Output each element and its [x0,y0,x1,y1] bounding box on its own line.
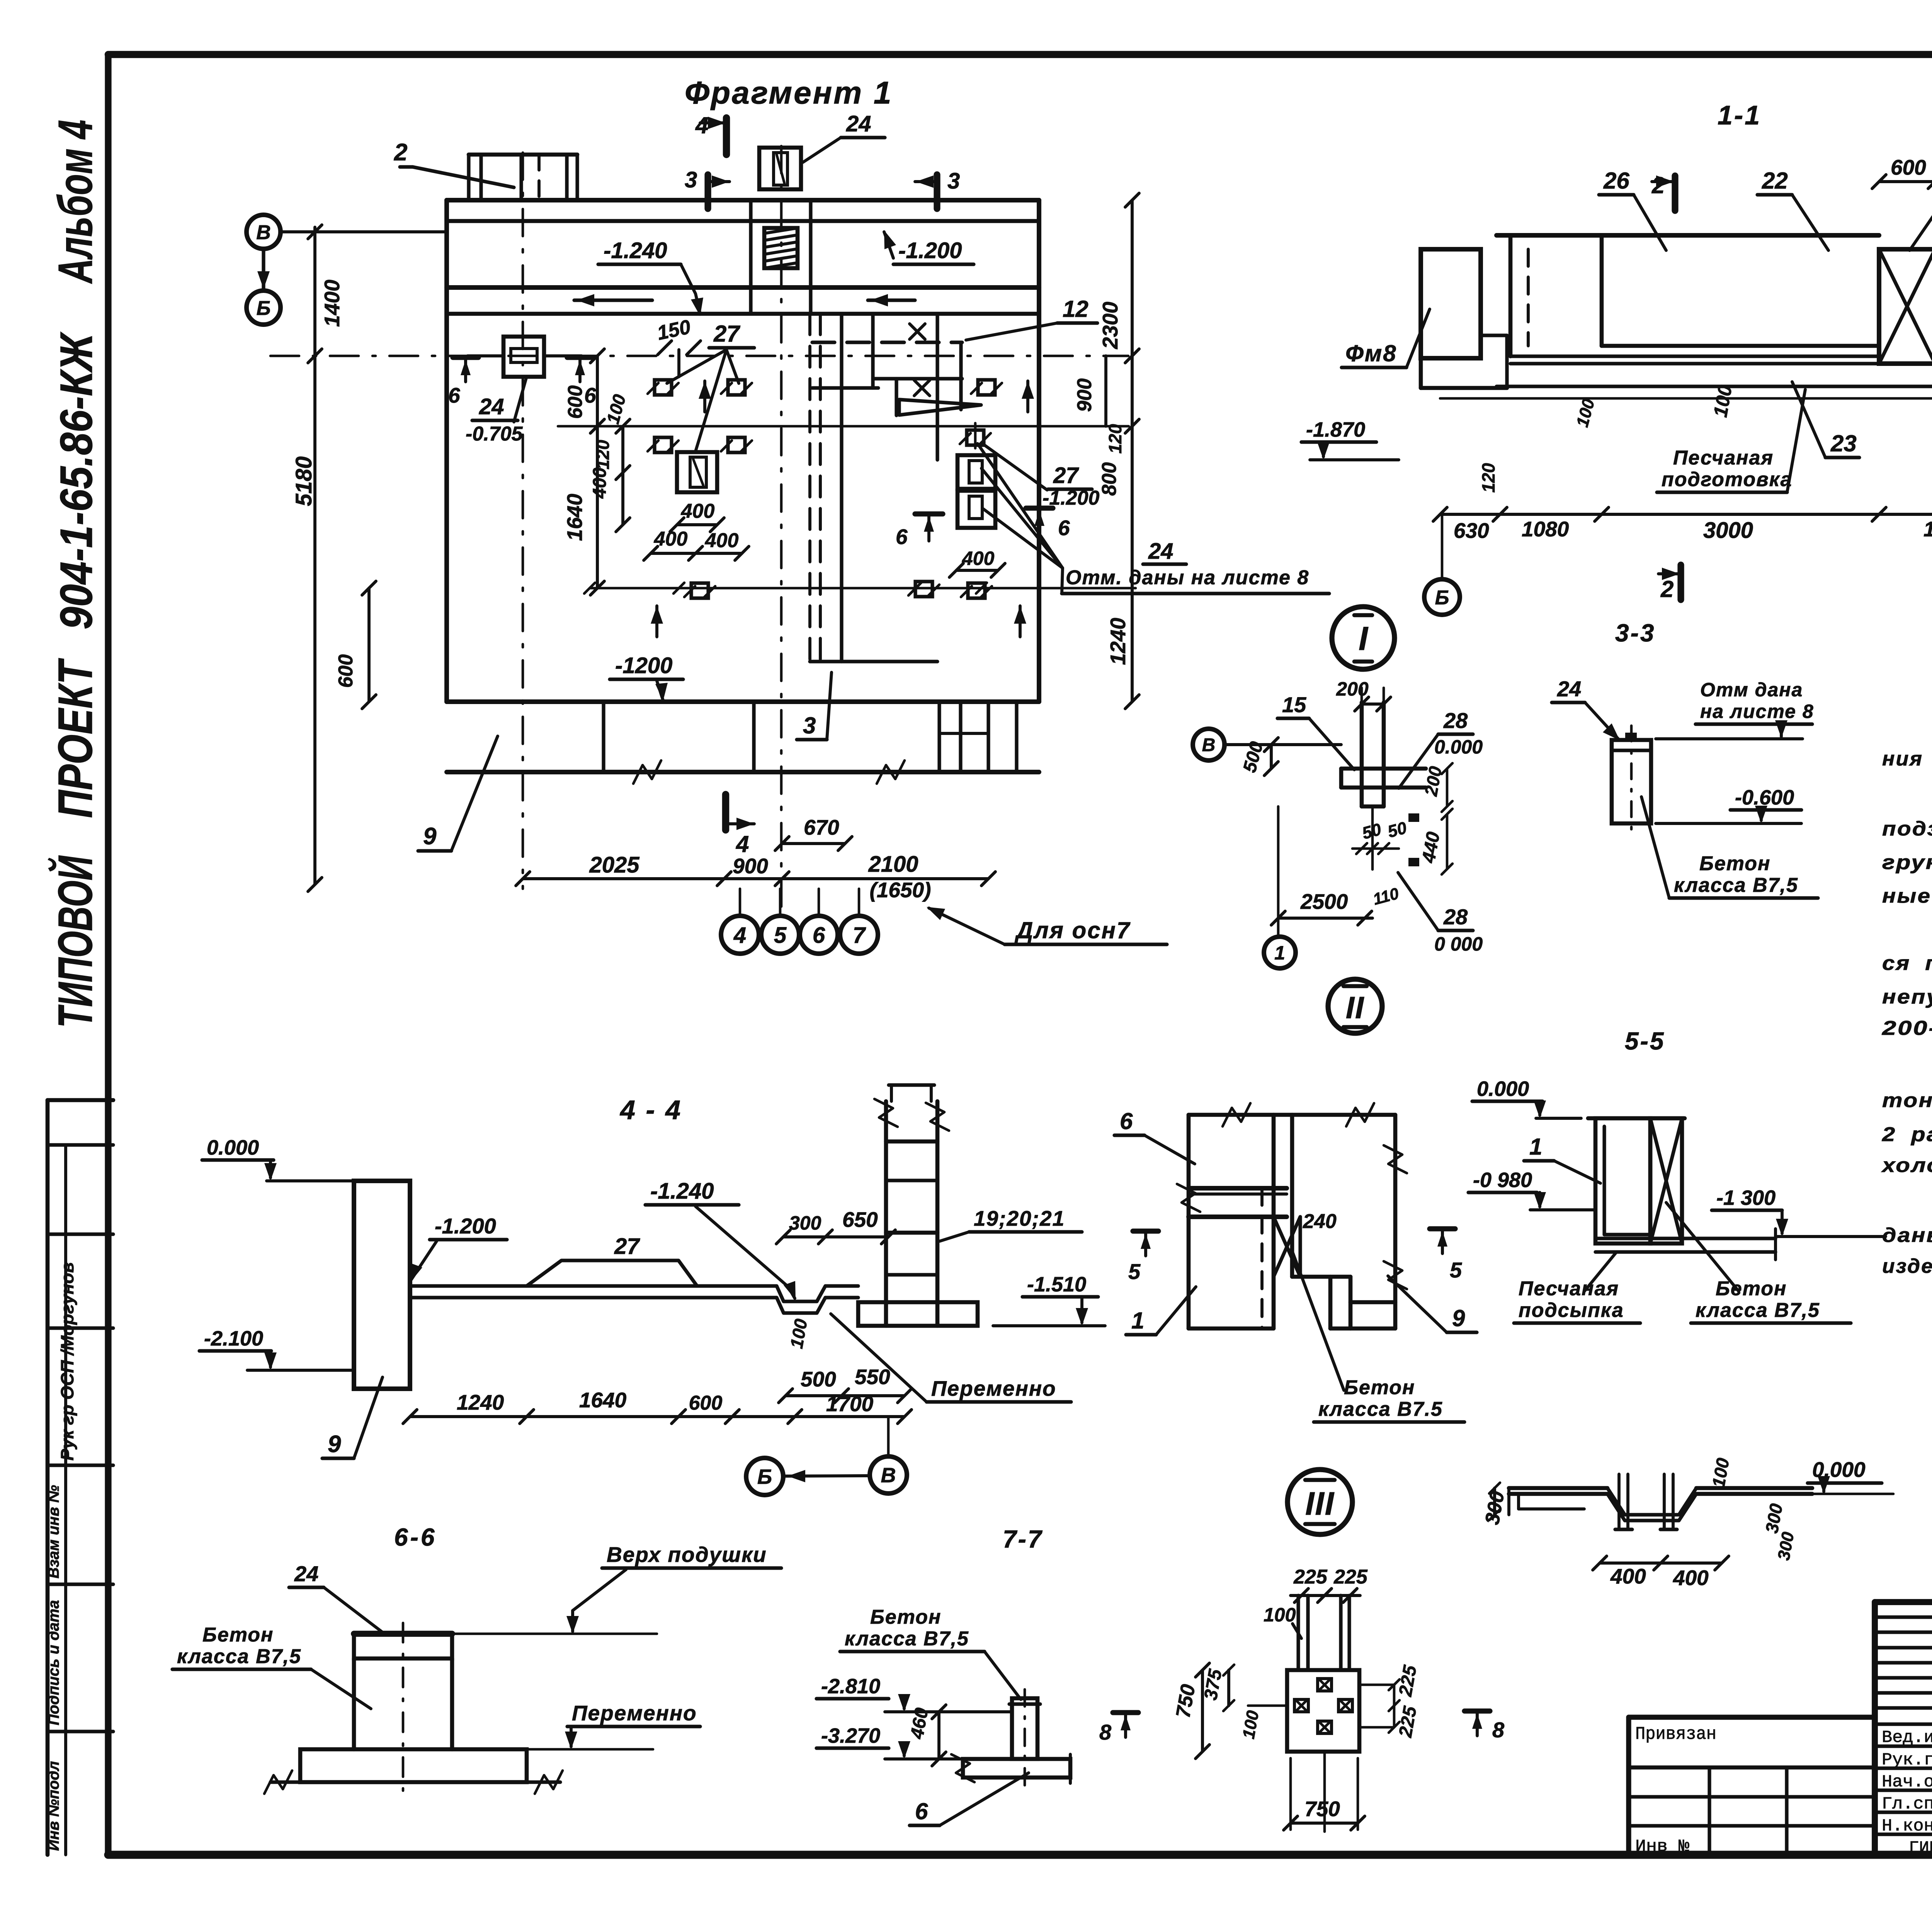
svg-text:изделий — отметки верха.: изделий — отметки верха. [1882,1255,1932,1277]
svg-text:Инв №: Инв № [1635,1837,1689,1856]
svg-text:В: В [256,221,271,244]
svg-text:120: 120 [593,440,613,469]
svg-text:грунт щебня или гравия крупнос: грунт щебня или гравия крупностью 40-60м… [1882,851,1932,874]
svg-text:6: 6 [915,1798,928,1824]
svg-text:2500: 2500 [1300,890,1348,913]
svg-text:400: 400 [590,468,610,499]
svg-text:27: 27 [614,1234,640,1259]
svg-text:-1.870: -1.870 [1306,418,1365,441]
svg-text:-2.810: -2.810 [821,1675,880,1698]
svg-text:5: 5 [774,923,787,948]
svg-text:подготовка: подготовка [1662,468,1793,491]
svg-text:9: 9 [1452,1305,1465,1331]
svg-text:-3.270: -3.270 [821,1724,880,1747]
svg-text:650: 650 [842,1208,878,1232]
svg-text:Фм8: Фм8 [1345,340,1397,366]
svg-text:4 - 4: 4 - 4 [619,1095,682,1125]
svg-text:Гл.спец: Гл.спец [1882,1795,1932,1814]
svg-text:400: 400 [1610,1564,1646,1588]
svg-text:200-300мм.: 200-300мм. [1882,1017,1932,1039]
svg-text:даны отметки низа конструкций,: даны отметки низа конструкций, а для опо… [1882,1224,1932,1247]
svg-text:240: 240 [1303,1210,1337,1233]
svg-text:1: 1 [1131,1308,1144,1334]
svg-text:Верх подушки: Верх подушки [607,1543,767,1567]
svg-text:400: 400 [705,529,739,552]
svg-text:непучинистым грунтом с послойн: непучинистым грунтом с послойным трамбов… [1882,986,1932,1008]
svg-text:подземных конструкций выполнят: подземных конструкций выполнять путем вт… [1882,818,1932,840]
svg-text:2 раза горячим битумом марки Б: 2 раза горячим битумом марки БН 70/30 (Г… [1882,1123,1932,1146]
svg-text:Переменно: Переменно [931,1376,1056,1400]
svg-text:1: 1 [1529,1134,1542,1160]
svg-text:600: 600 [689,1392,723,1414]
svg-text:12: 12 [1063,296,1088,322]
svg-text:Б: Б [1435,587,1449,609]
svg-text:Инв №подл: Инв №подл [45,1761,62,1851]
svg-text:Рук.гр.: Рук.гр. [1882,1750,1932,1770]
svg-text:3000: 3000 [1703,518,1753,543]
svg-text:III: III [1305,1485,1335,1522]
svg-text:26: 26 [1603,168,1629,194]
svg-text:Отм дана: Отм дана [1700,679,1803,701]
svg-text:5180: 5180 [291,456,316,506]
svg-text:8: 8 [1492,1718,1505,1742]
svg-text:0.000: 0.000 [1434,736,1483,758]
svg-text:II: II [1346,990,1364,1025]
svg-text:тонных конструкций, находящиес: тонных конструкций, находящиеся в грунте… [1882,1089,1932,1112]
svg-text:120: 120 [1105,424,1125,454]
svg-text:24: 24 [479,394,504,419]
svg-text:9: 9 [423,823,437,850]
svg-text:6: 6 [1120,1108,1133,1134]
svg-text:(1650): (1650) [870,878,931,902]
svg-text:класса В7.5: класса В7.5 [1318,1398,1443,1420]
svg-text:ПРОЕКТ: ПРОЕКТ [49,658,102,818]
svg-text:24: 24 [1148,539,1173,564]
svg-text:500: 500 [801,1367,836,1391]
svg-text:27: 27 [713,321,740,347]
svg-text:4: 4 [736,831,749,857]
svg-text:6: 6 [1058,516,1070,540]
svg-text:Бетон: Бетон [1699,852,1770,875]
svg-text:подсыпка: подсыпка [1519,1299,1624,1322]
svg-text:4: 4 [733,923,746,948]
svg-text:ГИП: ГИП [1909,1839,1932,1858]
svg-text:600: 600 [335,654,357,688]
svg-text:Отм. даны на листе 8: Отм. даны на листе 8 [1066,566,1309,589]
svg-text:Бетон: Бетон [202,1624,274,1646]
svg-text:1080: 1080 [1522,517,1569,541]
svg-text:9: 9 [328,1431,341,1458]
svg-text:5-5: 5-5 [1625,1027,1665,1055]
svg-text:6: 6 [896,525,908,549]
svg-text:7-7: 7-7 [1003,1525,1043,1553]
svg-text:Подпись и дата: Подпись и дата [45,1600,62,1725]
svg-text:1250: 1250 [1923,517,1932,541]
svg-text:0.000: 0.000 [1477,1077,1529,1101]
svg-text:24: 24 [1557,677,1581,701]
svg-text:класса В7,5: класса В7,5 [177,1645,301,1668]
svg-text:6: 6 [448,383,460,407]
svg-text:Переменно: Переменно [572,1701,697,1725]
svg-text:24: 24 [294,1561,318,1586]
svg-text:22: 22 [1762,168,1788,194]
svg-text:Альбом 4: Альбом 4 [49,120,102,284]
svg-text:900: 900 [1073,378,1096,412]
svg-text:В: В [1202,735,1216,755]
svg-text:28: 28 [1443,708,1468,733]
svg-text:2: 2 [1660,576,1673,602]
svg-text:1400: 1400 [320,279,344,327]
svg-text:2025: 2025 [589,852,639,878]
svg-text:3: 3 [803,713,816,738]
svg-text:5: 5 [1450,1258,1462,1282]
svg-text:1640: 1640 [579,1388,627,1412]
svg-text:-1.240: -1.240 [604,238,667,263]
svg-text:-1.200: -1.200 [898,238,962,263]
svg-text:23: 23 [1830,430,1857,456]
svg-text:600: 600 [1891,155,1926,179]
svg-text:Бетон: Бетон [870,1606,941,1628]
svg-text:1: 1 [1274,942,1285,964]
svg-text:750: 750 [1304,1797,1340,1821]
svg-text:8: 8 [1099,1720,1112,1744]
svg-text:904-1-65.86-КЖ: 904-1-65.86-КЖ [51,332,102,629]
svg-text:5: 5 [1128,1259,1141,1284]
svg-text:Привязан: Привязан [1635,1724,1716,1744]
svg-text:класса В7,5: класса В7,5 [845,1628,969,1650]
svg-text:24: 24 [846,111,871,136]
svg-text:4: 4 [695,112,708,138]
svg-text:6-6: 6-6 [394,1523,437,1551]
svg-text:7: 7 [853,923,866,948]
svg-text:Песчаная: Песчаная [1673,447,1774,469]
svg-text:1640: 1640 [563,493,587,541]
svg-text:400: 400 [654,528,688,550]
svg-text:1240: 1240 [1106,617,1130,665]
svg-text:630: 630 [1454,519,1489,543]
svg-text:900: 900 [733,854,768,878]
svg-text:-1 300: -1 300 [1716,1186,1776,1209]
svg-text:Б: Б [757,1465,772,1488]
svg-text:-2.100: -2.100 [204,1327,263,1350]
svg-text:Н.контр: Н.контр [1882,1817,1932,1836]
svg-text:Бетон: Бетон [1716,1277,1787,1300]
svg-text:-0 980: -0 980 [1473,1169,1532,1192]
svg-text:800: 800 [1098,462,1121,496]
svg-text:класса В7,5: класса В7,5 [1674,874,1798,896]
svg-text:1-1: 1-1 [1718,100,1761,130]
svg-text:ТИПОВОЙ: ТИПОВОЙ [48,855,102,1028]
svg-text:Песчаная: Песчаная [1519,1277,1619,1300]
svg-text:класса В7,5: класса В7,5 [1696,1299,1820,1322]
svg-text:225: 225 [1293,1566,1328,1588]
svg-text:3: 3 [685,167,697,192]
svg-text:27: 27 [1053,463,1079,488]
svg-text:600: 600 [564,385,587,419]
svg-text:100: 100 [1264,1604,1296,1626]
svg-text:на листе 8: на листе 8 [1700,701,1814,722]
svg-text:200: 200 [1336,678,1369,700]
svg-text:холодной битумной грунтовке.: холодной битумной грунтовке. [1881,1154,1932,1177]
svg-text:400: 400 [681,500,715,522]
svg-text:400: 400 [1673,1566,1709,1590]
svg-text:15: 15 [1282,692,1306,717]
svg-text:ния и фундаментных балок дана: ния и фундаментных балок дана на листе [1882,748,1932,770]
svg-text:300: 300 [789,1212,821,1234]
svg-text:I: I [1359,620,1369,657]
svg-text:ные железобетонные -из песка т: ные железобетонные -из песка толщиной 10… [1882,885,1932,907]
svg-text:3-3: 3-3 [1615,619,1656,647]
svg-text:670: 670 [804,815,839,839]
svg-text:0.000: 0.000 [207,1136,259,1159]
svg-text:-0.705: -0.705 [466,423,523,445]
svg-text:-1.510: -1.510 [1027,1273,1086,1296]
svg-text:Для осн7: Для осн7 [1014,917,1131,943]
svg-text:Нач.отл: Нач.отл [1882,1772,1932,1792]
svg-text:6: 6 [813,923,825,948]
svg-text:2: 2 [394,139,407,166]
svg-text:Б: Б [257,297,271,320]
svg-text:-1.240: -1.240 [650,1179,714,1204]
svg-text:2100: 2100 [868,852,918,877]
svg-text:2300: 2300 [1098,301,1122,349]
svg-text:550: 550 [855,1365,890,1389]
svg-text:28: 28 [1443,905,1468,929]
svg-text:Рук гр ОСП /Моргунов: Рук гр ОСП /Моргунов [57,1262,77,1461]
svg-text:-1.200: -1.200 [435,1214,496,1238]
svg-text:225: 225 [1333,1566,1368,1588]
svg-text:120: 120 [1478,463,1498,493]
svg-text:Фрагмент 1: Фрагмент 1 [685,75,893,111]
svg-text:ся производить после монтажа п: ся производить после монтажа плит перекр… [1882,952,1932,975]
svg-text:1700: 1700 [826,1392,874,1416]
svg-text:Бетон: Бетон [1344,1376,1415,1399]
svg-text:0 000: 0 000 [1434,933,1483,955]
svg-text:Вед.инж: Вед.инж [1882,1728,1932,1747]
svg-text:Взам инв №: Взам инв № [45,1485,62,1579]
svg-text:-1200: -1200 [615,653,672,678]
svg-text:В: В [881,1464,896,1487]
svg-text:400: 400 [962,548,995,569]
svg-text:1240: 1240 [457,1390,504,1414]
svg-text:3: 3 [947,168,960,194]
svg-text:19;20;21: 19;20;21 [974,1206,1065,1230]
